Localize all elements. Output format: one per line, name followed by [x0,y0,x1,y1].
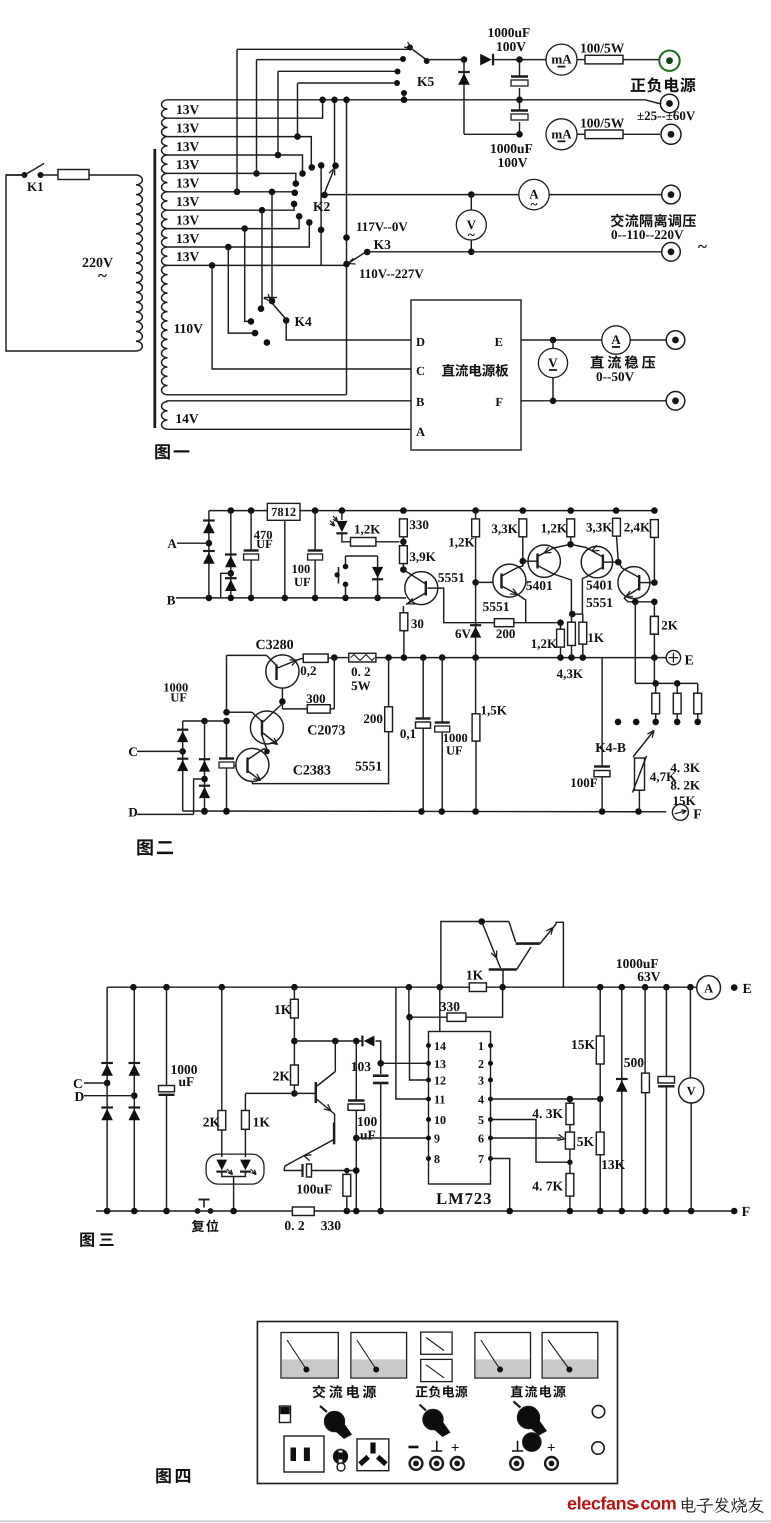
svg-text:C2073: C2073 [307,724,345,739]
wire F out [521,400,666,402]
terminal F [672,804,688,820]
svg-text:5551: 5551 [438,570,465,585]
svg-text:F: F [495,395,503,409]
svg-text:B: B [167,593,176,608]
svg-text:F: F [693,808,702,823]
K4-B contacts [615,719,622,726]
svg-text:100V: 100V [496,39,526,54]
resistor 330 bottom [346,1171,348,1175]
DC voltmeter [552,340,554,349]
svg-text:UF: UF [446,744,463,758]
svg-text:E: E [495,335,503,349]
bottom rail fig3 [96,1210,292,1212]
label DC supply [511,1385,566,1397]
label dual supply [416,1385,468,1397]
rotary switch K2 [332,162,339,169]
svg-text:uF: uF [360,1128,376,1143]
riser K3 column [346,100,348,395]
resistor 4.7K [569,1162,571,1173]
svg-text:15K: 15K [673,793,697,808]
terminal DC- [666,392,685,411]
resistor 3,9K [400,546,408,564]
svg-text:1,2K: 1,2K [541,521,568,536]
switch K5 [407,45,413,51]
resistor 4.3K [569,1099,571,1103]
voltmeter fig3 [689,987,691,1078]
label AC isolated supply [611,214,696,228]
diode D1 [480,54,492,66]
svg-text:500: 500 [624,1055,645,1070]
svg-text:110V: 110V [174,321,204,336]
svg-text:E: E [685,654,694,669]
svg-text:13V: 13V [176,139,200,154]
wire pin11 [396,987,429,1099]
wire K5 out [427,59,464,61]
svg-text:200: 200 [496,626,516,641]
resistor 2,4K [651,520,659,538]
svg-text:14: 14 [434,1039,446,1053]
black button [523,1433,542,1452]
secondary 110V bottom tap wire [168,394,347,396]
reset switch [195,1208,201,1214]
input A [177,542,209,544]
svg-text:100/5W: 100/5W [580,41,625,56]
transformer T1 primary winding [136,175,142,351]
svg-text:V: V [548,355,558,370]
transistor Q1 5551 [405,572,438,605]
svg-text:1,2K: 1,2K [354,522,381,537]
svg-text:30: 30 [411,616,424,631]
svg-text:4,3K: 4,3K [557,666,584,681]
svg-text:LM723: LM723 [436,1189,492,1208]
transistor Q4 5401 [581,546,612,577]
svg-text:~: ~ [468,227,475,242]
bus wires to K5 [237,48,409,50]
panel meter M3 dual [421,1332,452,1354]
svg-text:1K: 1K [466,968,484,983]
AC ammeter [519,179,549,209]
resistor 15K [599,987,601,1036]
indicator rings [592,1405,604,1417]
resistor 3,3K [519,519,527,537]
svg-text:7: 7 [478,1152,484,1166]
bottom divider [0,1520,771,1522]
svg-text:0--50V: 0--50V [596,369,635,384]
resistor 2K opto [221,987,223,1110]
svg-text:~: ~ [98,266,107,285]
tap line L2 [168,100,323,118]
svg-text:0. 2: 0. 2 [351,664,371,679]
diode column C [182,721,184,811]
resistor 1,2K mid [475,511,477,519]
caption fig3 [80,1233,113,1247]
capacitor 0,1 [422,658,424,718]
svg-text:2,4K: 2,4K [624,520,651,535]
DC board box [411,300,521,450]
svg-text:13V: 13V [176,194,200,209]
label plus-minus power [631,77,696,92]
resistor 500 [644,987,646,1073]
resistor 0.2 inline [292,1207,314,1216]
svg-text:5401: 5401 [586,578,613,593]
wire left loop to primary [6,175,136,351]
LED indicator [341,511,343,520]
svg-text:0,1: 0,1 [400,726,416,741]
capacitor 1000UF left [226,721,228,758]
panel border [257,1322,617,1484]
switch K1 [6,174,25,176]
capacitor 1000uF fig3 [166,987,168,1085]
C3280 stage [227,654,267,656]
AC output line2 [367,251,661,253]
panel meter M4 [475,1333,531,1379]
bottom bus F [183,810,667,813]
bridge diodes column2 [230,511,232,598]
tap line L1 common rail to mid terminal [168,100,662,104]
resistor 330 [400,539,407,546]
svg-text:1000uF: 1000uF [490,141,533,156]
secondary 14V winding [161,402,167,430]
resistor 330 loop [408,987,410,1017]
terminal AC bottom [662,243,681,262]
AC voltmeter [470,195,472,210]
svg-text:63V: 63V [637,969,661,984]
svg-text:10: 10 [434,1113,446,1127]
label DC regulated [591,355,656,368]
wire pin7 [491,1159,510,1212]
svg-text:A: A [611,332,621,347]
svg-text:~: ~ [531,197,538,212]
svg-text:±25--±60V: ±25--±60V [637,108,696,123]
wire C riser [212,265,411,369]
svg-text:K3: K3 [374,237,392,252]
svg-text:100F: 100F [570,775,598,790]
resistor 1,5K [475,658,477,714]
svg-text:D: D [75,1089,85,1104]
terminal - output [661,124,681,144]
capacitor 100uF bottom [284,1170,302,1172]
svg-text:1,5K: 1,5K [481,703,508,718]
tap line L9 [168,223,310,247]
transistor C2383 [236,748,269,781]
transistor T4 fig3 [333,1123,336,1145]
transformer core [153,149,156,428]
knob dual [423,1409,443,1429]
svg-text:4: 4 [478,1093,484,1107]
svg-text:5: 5 [478,1113,484,1127]
svg-text:K1: K1 [27,179,44,194]
C3280 emitter [281,688,283,709]
terminal E plus [666,650,680,664]
resistor 13K [599,1099,601,1132]
capacitor 100F [601,658,603,766]
svg-text:A: A [416,425,425,439]
optocoupler dual LED [206,1154,264,1184]
switch K3 [364,249,371,256]
panel meter M1 [281,1333,338,1379]
tap line L6 [168,191,295,193]
diode to bus [377,556,379,598]
panel meter M2 [351,1333,407,1379]
mid rail terminal [660,94,678,112]
svg-text:7812: 7812 [271,505,296,519]
ammeter fig3 [697,976,721,1000]
svg-text:13V: 13V [176,212,200,227]
svg-text:B: B [416,395,424,409]
svg-text:A: A [167,536,177,551]
svg-text:2K: 2K [661,618,679,633]
svg-text:0. 2: 0. 2 [284,1218,305,1233]
svg-text:⊥: ⊥ [511,1440,524,1456]
fuse holder [333,1449,347,1463]
transistor Q5 5551 [618,567,650,599]
svg-text:330: 330 [440,999,461,1014]
capacitor 1000UF right [441,658,443,722]
caption fig1 [155,444,189,459]
secondary 110V winding [161,265,167,394]
svg-text:0--110--220V: 0--110--220V [611,227,684,242]
ammeter mA lower [546,119,577,150]
resistor 1,2K bottom [557,619,564,626]
svg-text:C: C [128,744,137,759]
knob DC [517,1406,539,1428]
AC output line1 [468,191,475,198]
svg-text:1K: 1K [274,1002,292,1017]
svg-text:14V: 14V [175,411,199,426]
svg-text:8: 8 [434,1152,440,1166]
svg-text:100uF: 100uF [296,1182,332,1197]
svg-text:UF: UF [170,691,187,705]
LM723 box [429,1032,491,1185]
pushbutton protect [345,556,347,567]
resistor 100/5W upper [577,59,585,61]
zener 6V [475,582,477,657]
transistor Q2 5551 [493,564,526,597]
svg-text:D: D [416,335,425,349]
Q1 emitter resistor 30 [402,606,404,613]
tap line L4 [168,155,303,173]
svg-text:0,2: 0,2 [300,663,316,678]
svg-text:6: 6 [478,1132,484,1146]
capacitor 100uF mid [355,1041,357,1100]
tap line L3 [168,137,312,167]
svg-text:C3280: C3280 [256,638,294,653]
svg-text:100: 100 [292,562,311,576]
tap line L5 [168,173,296,182]
terminal AC top [662,185,681,204]
caption fig4 [156,1468,190,1483]
svg-text:6V: 6V [455,626,472,641]
input C [137,750,183,752]
input D [137,813,194,815]
resistor 1K opto [244,1093,246,1110]
horizontal diode line y1041 [294,1040,362,1042]
wire pin12 [410,1017,429,1080]
svg-text:C: C [416,364,425,378]
switch K4 [269,298,276,305]
capacitor 103 [380,1063,382,1074]
wire y614 + resistors 4,3K 1K [572,613,583,615]
svg-text:5401: 5401 [526,578,553,593]
wire 2K to divider [653,658,655,684]
svg-text:1,2K: 1,2K [448,535,475,550]
rocker switch [279,1406,290,1423]
wire K4 to D pin [286,320,411,340]
caption fig2 [137,839,173,855]
wire A [166,428,411,430]
socket 2pin [284,1436,324,1472]
svg-text:UF: UF [294,575,311,589]
bridge diodes column1 [208,511,210,598]
potentiometer 4,7K [635,758,645,790]
svg-text:100/5W: 100/5W [580,116,625,131]
fuse F1 [58,170,89,180]
capacitor C1 1000uF 100V [519,60,521,76]
svg-text:3,3K: 3,3K [491,521,518,536]
svg-text:13V: 13V [176,120,200,135]
svg-text:200: 200 [363,711,383,726]
svg-text:13V: 13V [176,249,200,264]
svg-text:330: 330 [409,517,429,532]
svg-text:13V: 13V [176,176,200,191]
svg-text:K4: K4 [295,314,313,329]
bridge column1 + input C [106,987,108,1211]
svg-text:1: 1 [478,1039,484,1053]
svg-text:1K: 1K [587,630,605,645]
Q1 base wire + resistor 200 [428,588,495,623]
K4-B divider bank [635,682,697,684]
wire 1K to T3 base [245,1092,294,1094]
wire E out [521,339,602,341]
panel meter M5 [542,1333,598,1379]
svg-text:5551: 5551 [483,599,510,614]
svg-text:13V: 13V [176,157,200,172]
resistor 2K [653,602,655,617]
rail E mid: 0.2 5W power resistor [331,654,338,661]
svg-text:2: 2 [478,1057,484,1071]
wire to Q2 base [476,581,493,583]
svg-text:330: 330 [321,1218,342,1233]
svg-text:1000uF: 1000uF [488,25,531,40]
tap line L7 [168,205,295,210]
svg-text:mA: mA [551,52,572,67]
tap line L8 [168,217,300,228]
svg-text:~: ~ [698,237,707,256]
svg-text:K2: K2 [313,199,331,214]
transformer secondary 13V string winding [162,100,168,266]
wire pin4 [491,1098,601,1100]
wire pin13 [381,1062,429,1064]
tap line L10 [168,264,347,266]
svg-text:2K: 2K [273,1069,291,1084]
svg-text:3,3K: 3,3K [586,520,613,535]
svg-text:3: 3 [478,1074,484,1088]
resistor 1,2K Q3 [567,519,575,537]
capacitor 100uF [314,511,316,550]
svg-text:3,9K: 3,9K [409,549,436,564]
svg-text:4. 7K: 4. 7K [532,1179,563,1194]
resistor 1,2K led [351,538,376,547]
svg-text:9: 9 [434,1132,440,1146]
resistor 0,2 [303,654,328,662]
column 1K/2K feed [293,987,295,999]
svg-text:elecfans: elecfans [567,1494,636,1514]
capacitor C2 1000uF 100V [511,109,528,111]
wire pin6 wiper [491,1137,562,1139]
regulator 7812 [267,503,300,520]
label AC supply [313,1385,377,1398]
svg-text:1,2K: 1,2K [531,636,558,651]
C2383 emitter wire to 200 [252,732,388,784]
bridge column2 + input D [133,987,135,1211]
svg-text:5K: 5K [577,1134,595,1149]
socket 3pin [357,1439,389,1471]
logo chinese [681,1497,763,1513]
svg-text:4. 3K: 4. 3K [532,1106,563,1121]
svg-text:13V: 13V [176,231,200,246]
left bridge C/D [226,655,228,712]
capacitor 470uF [250,511,252,550]
svg-text:+: + [451,1441,460,1457]
svg-text:1K: 1K [253,1115,271,1130]
capacitor 1000uF 63V [665,987,667,1076]
svg-text:K5: K5 [417,74,435,89]
resistor 3,3K right [613,518,621,536]
resistor 100/5W lower [577,133,585,135]
svg-text:100V: 100V [498,155,528,170]
svg-text:A: A [704,981,713,995]
terminal + output [659,51,679,71]
risers taps down to K4 and C [271,192,273,301]
svg-text:⊥: ⊥ [430,1440,443,1456]
input B / B bus [176,597,406,599]
svg-text:F: F [742,1205,751,1220]
wire box top feed [439,987,441,1031]
zener 500 column [621,987,623,1211]
svg-text:mA: mA [551,126,572,141]
svg-text:103: 103 [351,1059,372,1074]
svg-text:11: 11 [434,1093,445,1107]
wire pin9 [353,1135,360,1142]
diode column D [204,721,206,811]
svg-text:13: 13 [434,1057,446,1071]
potentiometer 5K [565,1132,574,1149]
wire Q5 emitter down [634,602,636,684]
DC ammeter [602,326,630,354]
IC pins right [488,1043,493,1048]
riser wires bus to taps [236,49,238,192]
top bus [209,510,267,512]
IC pins left [426,1043,431,1048]
wire B [166,400,411,402]
wire pin5 [491,1120,569,1163]
svg-text:300: 300 [306,691,326,706]
svg-text:5551: 5551 [586,595,613,610]
svg-text:2K: 2K [203,1115,221,1130]
svg-text:UF: UF [256,537,273,551]
terminals dual - [409,1446,419,1449]
rail y721 [183,720,227,722]
svg-text:110V--227V: 110V--227V [359,266,424,281]
svg-text:5551: 5551 [355,759,382,774]
transistor T3 fig3 [315,1082,318,1103]
svg-text:117V--0V: 117V--0V [356,219,408,234]
ammeter mA upper [546,44,577,75]
svg-text:5W: 5W [351,678,371,693]
svg-text:K4-B: K4-B [595,740,626,755]
top rail fig3 [107,986,697,988]
resistor 1K top [469,983,486,992]
